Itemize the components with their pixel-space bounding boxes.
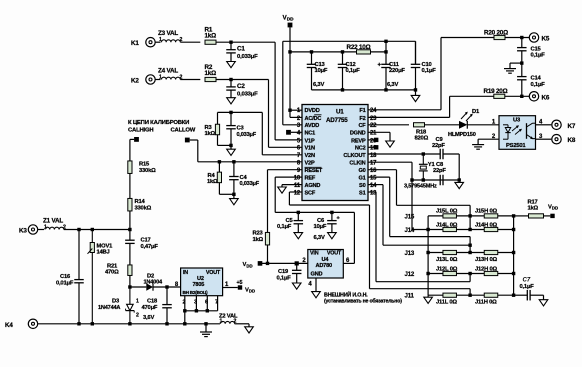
ground jumper bus [424,297,433,303]
svg-text:R22 10Ω: R22 10Ω [347,44,371,51]
svg-text:U1: U1 [336,109,344,116]
junction J12 right [512,272,515,275]
wire U3 pin2 ground [478,139,499,144]
wire bottom rail [38,323,220,325]
ground under R3 C3 [227,149,236,155]
svg-text:NC1: NC1 [305,131,316,137]
label U2 bottom pins [183,299,219,305]
resistor R19 [484,88,508,98]
wire AVDD net [283,41,416,125]
junction J13 right [512,251,515,254]
junction R22-C11 [384,50,387,53]
terminal NC1 [286,130,291,135]
connector K4 [5,319,38,329]
capacitor C10 [411,41,437,90]
junction J14 middle [468,228,471,231]
wire C3 to ground [230,145,232,149]
resistor J11L [436,293,457,305]
svg-text:F1: F1 [359,108,365,114]
wire row J12 [428,273,513,275]
wire V2N to pin7 [262,112,302,154]
svg-text:C14: C14 [531,76,542,82]
wire R23 to VDD rail [267,245,269,263]
wire U2 pin6 [206,296,208,311]
svg-text:2: 2 [183,299,186,305]
connector K1 [131,38,155,48]
resistor J15L [436,209,458,218]
wire SCF [289,192,470,295]
junction J14 right [512,228,515,231]
junction node C1 [229,41,232,44]
wire R2 to V1N corner [216,79,269,81]
svg-text:470Ω: 470Ω [105,270,119,276]
svg-text:0,1μF: 0,1μF [277,275,292,281]
svg-text:GND: GND [311,272,323,278]
svg-text:C18: C18 [147,298,158,304]
svg-text:Z1 VAL: Z1 VAL [43,217,63,224]
ground DGND [386,141,395,147]
resistor R17 [528,200,544,218]
wire U2 out [223,287,238,289]
junction C11 bottom [384,88,387,91]
wire Z1 to C17 node [64,229,130,231]
svg-text:C16: C16 [60,274,71,280]
svg-text:23: 23 [370,116,377,122]
svg-text:V1N: V1N [305,146,315,152]
resistor J13H [475,250,498,262]
wire VDD rail vertical [290,27,302,117]
resistor J14H [475,222,498,231]
junction C12 top [341,50,344,53]
svg-text:K4: K4 [5,322,13,329]
label J15 [405,213,415,220]
wire U2 pin3 [195,296,197,311]
wire NC2 stub [368,146,374,148]
svg-text:(устанавливать не обязательно): (устанавливать не обязательно) [324,297,402,304]
resistor R18 [414,123,429,142]
svg-text:J14: J14 [405,227,415,234]
capacitor C14 [517,63,545,96]
wire bus gnd stub [427,295,429,297]
svg-text:G0: G0 [358,168,365,174]
svg-text:IN: IN [183,270,188,276]
svg-text:VDD: VDD [245,288,255,294]
svg-text:AD780: AD780 [316,263,333,269]
svg-text:R14: R14 [135,199,146,205]
wire CF pin22 [368,124,409,126]
wire row J11 [428,294,513,296]
svg-text:10: 10 [294,176,301,182]
connector K8 [552,135,576,145]
svg-text:G1: G1 [358,176,365,182]
wire C7 gnd [543,295,545,300]
wire G0 to J15 [368,170,470,216]
svg-text:0,47μF: 0,47μF [141,244,159,250]
svg-text:J15: J15 [405,213,415,220]
svg-text:J14H 0Ω: J14H 0Ω [475,222,497,228]
wire caps to ground [458,154,460,180]
svg-text:CLKOUT: CLKOUT [343,153,366,159]
capacitor C18 [142,287,172,324]
junction crystal bottom [422,178,425,181]
wire R19 to K6 [505,95,530,97]
resistor J11H [475,293,498,305]
svg-text:0,033μF: 0,033μF [240,181,260,187]
svg-text:J12H 0Ω: J12H 0Ω [475,266,497,272]
junction J11 right [512,294,515,297]
zener D3 1N4744A [98,287,139,324]
wire VDD rail [262,262,308,264]
ground under C6 [328,233,337,239]
svg-text:VIN: VIN [310,251,319,257]
svg-text:C19: C19 [278,269,289,275]
svg-text:V2P: V2P [305,161,315,167]
svg-text:11: 11 [294,183,301,189]
svg-text:+5: +5 [237,280,243,286]
junction crystal top [422,152,425,155]
junction C18 bottom [165,322,168,325]
svg-text:3,6V: 3,6V [143,315,154,321]
wire R15-R14 [129,174,131,199]
junction CLKIN ext [410,178,413,181]
terminal REVP [374,138,378,142]
connector K3 [19,225,38,235]
junction C3 bottom [229,144,232,147]
inductor Z4 [158,67,183,80]
svg-text:0,1μF: 0,1μF [346,68,361,74]
junction bus pin2 [183,309,186,312]
svg-text:7: 7 [215,299,218,305]
ground between C15 C14 [504,69,516,74]
capacitor C1 [226,42,258,61]
svg-text:V1P: V1P [305,138,315,144]
ground under R4 C4 [230,199,239,205]
wire CLKIN [368,162,440,180]
svg-text:D3: D3 [112,299,120,305]
wire row J13 [428,252,513,254]
svg-text:21: 21 [370,131,377,137]
capacitor C7 [514,277,544,300]
capacitor C16 [56,230,84,324]
terminal CALLOW [185,138,190,143]
wire R17 to VDD [544,215,551,217]
junction bus pin6 [206,309,209,312]
diode D2 [144,274,163,291]
junction C4 top [232,160,235,163]
ground under C2 [227,98,236,104]
resistor R22 [347,44,371,54]
svg-text:Y1: Y1 [428,162,436,168]
svg-text:RESET: RESET [305,168,323,174]
svg-text:AD7755: AD7755 [326,117,348,124]
svg-text:0,033μF: 0,033μF [237,54,258,60]
svg-text:VDD: VDD [548,205,558,211]
svg-text:R23: R23 [253,231,264,237]
svg-text:K8: K8 [568,137,576,144]
resistor R23 [253,231,270,245]
junction C12 bottom [341,88,344,91]
ground bottom rail [200,332,212,337]
junction J15 right [512,214,515,217]
svg-text:C1: C1 [237,46,245,53]
junction C16 top [77,228,80,231]
svg-text:0,1μF: 0,1μF [422,68,437,74]
svg-text:C17: C17 [141,238,151,244]
svg-text:820Ω: 820Ω [415,135,429,141]
svg-text:1kΩ: 1kΩ [205,70,217,77]
svg-text:C8: C8 [436,162,444,168]
svg-text:1kΩ: 1kΩ [528,206,539,212]
junction bus J14 [426,228,429,231]
wire DVDD decoupling rail [290,51,386,53]
capacitor C15 [517,38,545,64]
wire R18 to D1 [425,124,460,126]
capacitor C19 [277,263,302,283]
wire jumper ground bus [427,216,429,295]
junction AVDD-C11 node [384,40,387,43]
junction U2 gnd [183,322,186,325]
wire Z4 to R2 [180,79,200,81]
svg-text:NC2: NC2 [355,146,366,152]
svg-text:1N4744A: 1N4744A [98,305,120,311]
wire decoupling bottom rail [312,89,416,91]
label J11 [405,293,415,300]
LED D1 [448,109,480,138]
junction MOV1 bottom [91,322,94,325]
svg-text:0,1μF: 0,1μF [277,224,292,230]
svg-text:J12: J12 [405,271,415,278]
capacitor C13 [307,52,328,90]
wire C11 node riser [385,41,387,52]
svg-text:1: 1 [136,299,139,305]
wire J15-J14 middle link [469,216,471,230]
resistor R2 [205,64,217,82]
svg-text:1kΩ: 1kΩ [205,33,217,40]
wire REF pin10 [275,177,354,263]
svg-text:470μF: 470μF [142,305,158,311]
inductor Z1 [43,217,66,230]
wire C4 to ground [233,194,235,198]
wire U4 pin4 gnd [315,278,317,292]
ground C19 [292,283,301,289]
resistor R1 [205,27,217,45]
wire row J15 [428,215,513,217]
wire K3 to Z1 [38,229,44,231]
wire ground tap [510,63,522,68]
junction J13 middle [468,251,471,254]
svg-text:6,3V: 6,3V [314,235,325,241]
junction R4 top [218,160,221,163]
resistor J15H [475,209,498,218]
junction D3 node [128,285,131,288]
resistor R15 [128,161,156,174]
ground under C5 [294,233,303,239]
svg-text:J11H 0Ω: J11H 0Ω [475,300,497,306]
svg-text:1kΩ: 1kΩ [205,131,216,137]
wire bus to rail [184,311,186,324]
svg-text:DVDD: DVDD [305,108,320,114]
svg-text:AVDD: AVDD [305,123,320,129]
junction C14 bottom [520,95,523,98]
wire U3 pin4 to K7 [536,124,552,126]
svg-text:К ЦЕПИ КАЛИБРОВКИ: К ЦЕПИ КАЛИБРОВКИ [128,120,189,126]
wire DGND pin21 [368,132,390,141]
junction C13 top [310,50,313,53]
wire F1 to R20 [368,38,494,110]
label J13 [405,250,415,257]
ground crystal [455,182,464,188]
svg-text:0,01μF: 0,01μF [56,280,74,286]
wire CALHIGH down [130,139,134,161]
resistor R14 [128,198,152,211]
svg-text:15: 15 [370,176,377,182]
svg-text:C3: C3 [237,126,245,132]
wire K2 to Z4 [155,79,160,81]
wire U2 pin7 [217,296,219,311]
svg-text:R15: R15 [139,162,150,168]
inductor Z3 [158,30,183,43]
svg-text:14BJ: 14BJ [97,249,110,255]
crystal Y1 [419,154,436,180]
optocoupler U3 PS2501 [492,116,543,150]
junction C10 bottom [414,88,417,91]
ground decoupling rail [411,95,420,101]
wire R21 to D2 node [129,276,131,288]
wire AVDD to C10 [415,41,417,64]
svg-text:3: 3 [194,299,197,305]
wire V1P [275,42,302,140]
junction R23 VDD [266,262,269,265]
svg-text:J11L 0Ω: J11L 0Ω [436,300,457,306]
svg-text:J13L 0Ω: J13L 0Ω [436,257,458,263]
wire R1 to V1P corner [216,41,275,43]
svg-text:1N4004: 1N4004 [144,279,163,285]
connector K2 [131,75,155,85]
label crystal frequency [404,184,437,190]
junction S0-G1 feed [468,244,471,247]
label zener voltage [143,315,154,321]
junction C16 bottom [77,322,80,325]
power VDD rail mid [243,261,263,268]
wire F2 to R19 [368,96,494,117]
svg-text:17: 17 [370,161,377,167]
svg-text:24: 24 [370,108,377,114]
junction node C2 [229,78,232,81]
svg-text:S0: S0 [359,183,366,189]
svg-text:J11: J11 [405,293,415,300]
junction C18 top [165,285,168,288]
capacitor C2 [226,80,258,98]
capacitor C17 [125,230,158,266]
voltage reference U4 AD780 [302,250,350,279]
wire bus to R17 [514,215,529,217]
wire rail to ground [415,90,417,96]
wire U2 gnd bus [185,310,218,312]
resistor R4 [207,162,234,195]
svg-text:12: 12 [294,190,301,196]
inductor Z2 [219,314,238,325]
svg-text:F2: F2 [359,116,365,122]
svg-text:J15H 0Ω: J15H 0Ω [475,209,497,215]
junction C6 top [330,211,333,214]
svg-text:R4: R4 [208,173,216,179]
wire D2 to U2 [153,286,181,288]
capacitor C8 [433,162,459,185]
label external reference [324,290,402,304]
svg-text:SCF: SCF [305,190,316,196]
junction C15 top [520,36,523,39]
svg-text:REF: REF [305,176,316,182]
svg-text:+: + [337,216,340,222]
wire Z2 to gnd [235,324,249,327]
svg-text:CALHIGH: CALHIGH [128,128,153,134]
capacitor C11 [378,52,406,90]
wire U3 pin3 to K8 [536,138,552,140]
label calibration circuit [128,120,196,134]
svg-text:330kΩ: 330kΩ [135,206,152,212]
wire U4 pin6 [343,262,354,264]
svg-text:J13H 0Ω: J13H 0Ω [475,257,497,263]
wire NC1 stub [291,131,302,133]
svg-text:Z3 VAL: Z3 VAL [158,30,178,37]
svg-text:0,1μF: 0,1μF [520,284,535,290]
wire R20 to K5 [505,37,529,39]
junction J15 middle [468,214,471,217]
wire rail gnd stub [205,324,207,332]
svg-text:K7: K7 [568,123,576,130]
svg-text:K3: K3 [19,228,27,235]
connector K6 [529,92,550,102]
wire AVDD to pin3 [283,124,302,126]
ground under C1 [227,62,236,68]
svg-text:6,3V: 6,3V [387,82,398,88]
junction bus J13 [426,251,429,254]
ground C7 [539,300,548,306]
svg-text:1kΩ: 1kΩ [253,237,264,243]
svg-text:ВНЕШНИЙ И.О.Н.: ВНЕШНИЙ И.О.Н. [324,290,368,298]
svg-text:VOUT: VOUT [327,251,342,257]
junction J11 middle [468,294,471,297]
wire K1 to Z3 [155,41,160,43]
svg-text:22pF: 22pF [433,168,446,174]
wire S0 to J13 node [368,185,470,246]
wire CLKIN ext to J14 [412,180,428,230]
svg-text:D1: D1 [472,109,480,115]
svg-text:ВН В2(ВОЦ): ВН В2(ВОЦ) [183,290,209,295]
capacitor C9 [432,137,459,159]
wire R14 down [129,211,131,230]
ground U4 [308,282,320,298]
svg-text:VOUT: VOUT [206,270,221,276]
svg-text:0,033μF: 0,033μF [237,91,258,97]
wire AGND pin11 [282,185,302,187]
svg-text:S1: S1 [359,190,366,196]
svg-text:Z4 VAL: Z4 VAL [158,67,178,74]
wire DVDD pin1 [290,109,302,111]
svg-text:10μF: 10μF [315,68,328,74]
resistor R21 [105,264,132,276]
svg-text:CF: CF [358,123,366,129]
wire jumper high bus [513,216,515,295]
junction C14 top [520,61,523,64]
svg-text:PS2501: PS2501 [506,143,526,149]
capacitor C12 [338,52,361,90]
svg-text:J12L 0Ω: J12L 0Ω [436,266,458,272]
terminal NC2 [374,145,378,149]
svg-text:K2: K2 [131,78,139,85]
junction C3 top [229,111,232,114]
wire Z3 to R1 [180,41,200,43]
